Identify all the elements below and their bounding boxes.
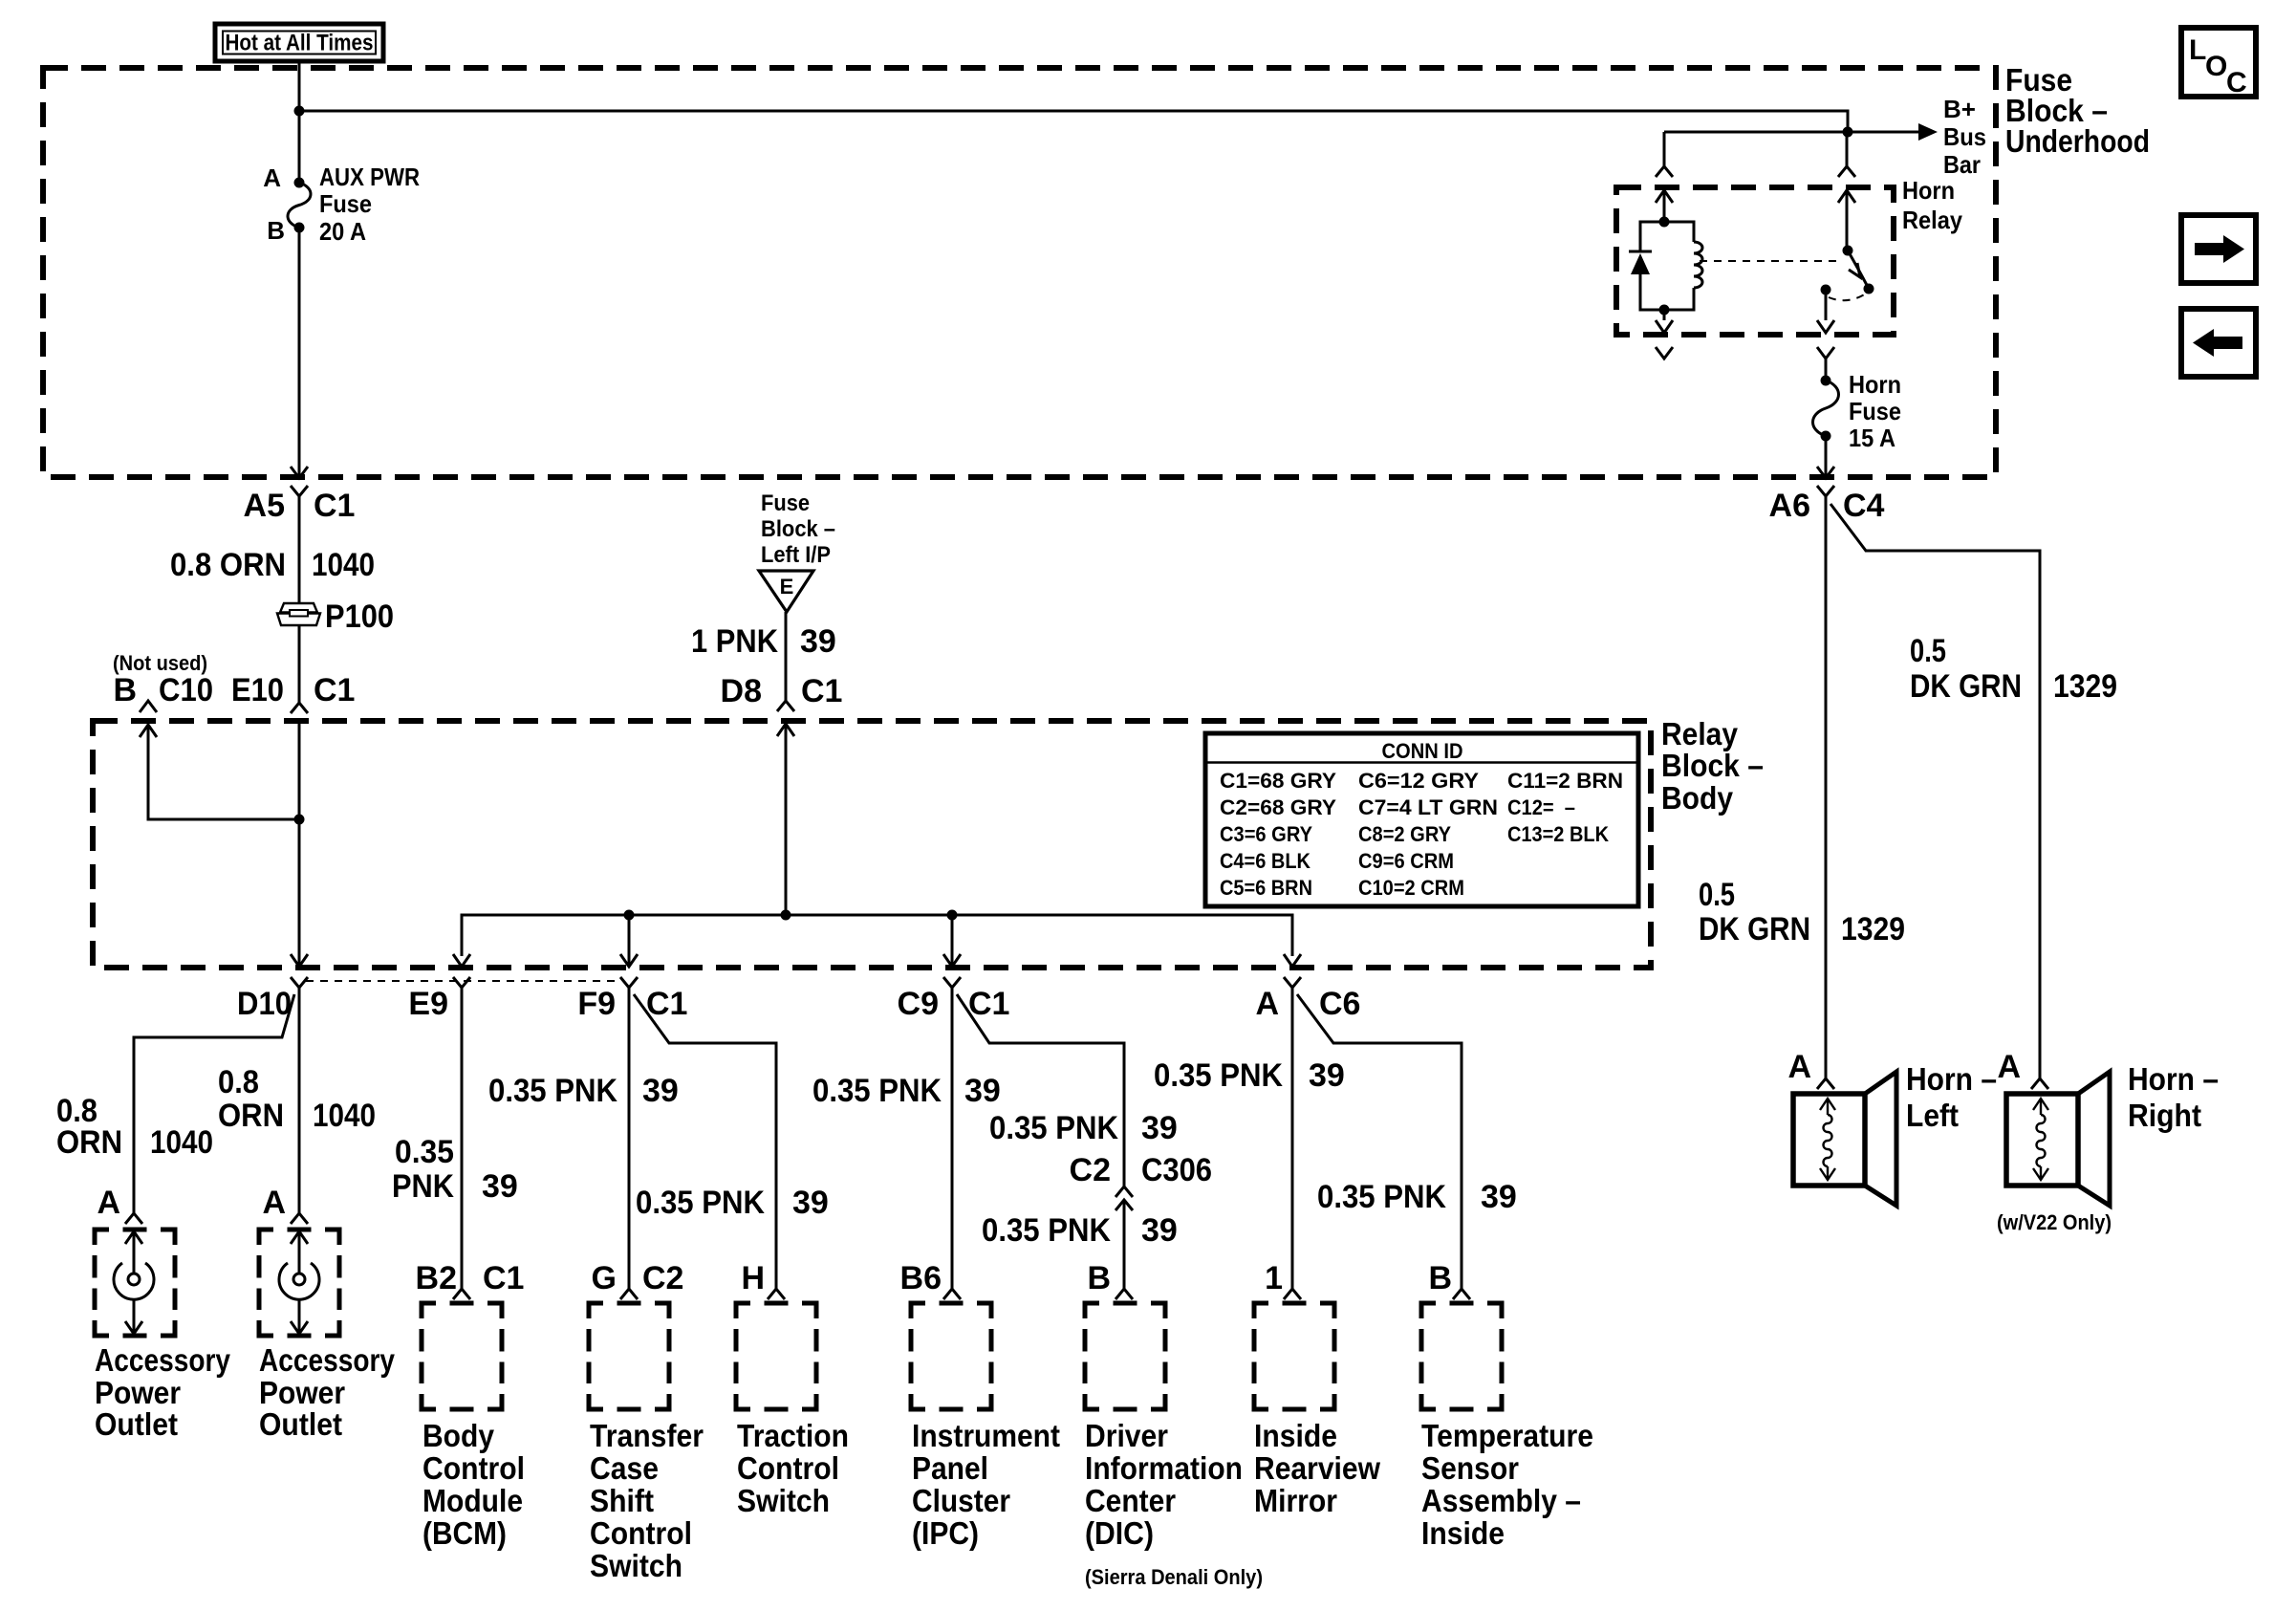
svg-text:0.35 PNK: 0.35 PNK — [1317, 1179, 1446, 1215]
svg-text:C4: C4 — [1843, 488, 1885, 524]
horn right coil symbol — [2033, 1099, 2048, 1180]
wire branch to B+ bus bar — [299, 111, 1848, 132]
svg-text:C2=68 GRY: C2=68 GRY — [1220, 795, 1336, 819]
wire A6 to left horn — [1825, 496, 1828, 1078]
wire C9 branch to DIC — [957, 994, 1124, 1186]
label 0.8 ORN 1040 outlet1 — [56, 1093, 213, 1161]
label Horn Fuse 15 A — [1849, 370, 1901, 452]
svg-text:Control: Control — [590, 1515, 692, 1551]
svg-text:P100: P100 — [325, 599, 394, 635]
svg-text:A: A — [1787, 1049, 1811, 1085]
label AUX PWR Fuse 20 A — [319, 163, 420, 246]
svg-text:1040: 1040 — [313, 1098, 376, 1134]
svg-text:C13=2 BLK: C13=2 BLK — [1507, 822, 1609, 846]
svg-text:0.35 PNK: 0.35 PNK — [636, 1185, 765, 1221]
svg-text:F9: F9 — [577, 986, 616, 1022]
svg-text:A: A — [263, 163, 281, 192]
connector chevron coil ground below relay — [1656, 347, 1673, 359]
node junction at main feed — [294, 106, 305, 117]
svg-text:C5=6 BRN: C5=6 BRN — [1220, 876, 1312, 900]
svg-text:0.35 PNK: 0.35 PNK — [989, 1110, 1118, 1146]
horn right box — [2006, 1072, 2110, 1206]
label 0.35 PNK 39 BCM — [392, 1134, 518, 1205]
svg-text:Instrument: Instrument — [912, 1418, 1060, 1453]
svg-text:0.35: 0.35 — [395, 1134, 454, 1170]
connector chevron traction — [768, 1289, 785, 1299]
svg-text:A: A — [97, 1185, 120, 1221]
connector chevron transfer — [620, 1289, 638, 1299]
svg-text:Assembly –: Assembly – — [1421, 1483, 1581, 1518]
connector chevron horn right — [2031, 1078, 2048, 1089]
svg-text:Temperature: Temperature — [1421, 1418, 1593, 1453]
node junction on bus bar — [1843, 127, 1853, 138]
wire B+ bus bar with arrow — [1664, 131, 1918, 134]
svg-text:Block –: Block – — [761, 516, 835, 542]
svg-text:39: 39 — [1141, 1110, 1178, 1146]
wire F9 to transfer case switch — [628, 988, 631, 1289]
svg-text:L: L — [2189, 34, 2206, 66]
svg-text:DK GRN: DK GRN — [1699, 911, 1810, 947]
node Hot at All Times — [215, 24, 383, 61]
relay coil loop — [1640, 217, 1694, 316]
svg-text:Block –: Block – — [1661, 748, 1764, 783]
label Body Control Module (BCM) — [422, 1418, 525, 1551]
svg-text:Bar: Bar — [1943, 150, 1981, 179]
wire D8 down to bus — [785, 724, 788, 915]
connector chevron horn left — [1817, 1078, 1834, 1089]
arrow exit at A6 — [1817, 467, 1834, 478]
svg-text:B2: B2 — [416, 1260, 457, 1296]
svg-text:39: 39 — [792, 1185, 829, 1221]
svg-text:C3=6 GRY: C3=6 GRY — [1220, 822, 1312, 846]
svg-text:39: 39 — [642, 1073, 679, 1109]
connector P100 — [277, 603, 320, 625]
wire not-used branch — [148, 725, 299, 819]
arrow exit at D10 — [291, 954, 308, 967]
arrow exit at A5 — [291, 467, 308, 478]
svg-text:Fuse: Fuse — [1849, 397, 1901, 425]
svg-text:(w/V22 Only): (w/V22 Only) — [1997, 1210, 2112, 1234]
wire A5 to P100 — [298, 496, 301, 703]
wire D10 to outlet 2 — [298, 988, 301, 1213]
wire E9 to BCM — [461, 988, 464, 1289]
svg-text:Horn: Horn — [1849, 370, 1901, 399]
wire fuse B down to fuse block bottom — [298, 228, 301, 475]
svg-text:C12= –: C12= – — [1507, 795, 1575, 819]
node E triangle Fuse Block Left I/P — [759, 571, 813, 612]
node junction C9 — [947, 910, 958, 921]
node back arrow box — [2181, 309, 2256, 377]
body control module box — [422, 1303, 502, 1409]
svg-text:Mirror: Mirror — [1254, 1483, 1337, 1518]
node junction D8 bus — [781, 910, 791, 921]
wire A C6 to mirror — [1291, 988, 1294, 1289]
wire C1 link dashed — [306, 980, 621, 982]
svg-text:Bus: Bus — [1943, 122, 1986, 151]
arrow exit at A C6 — [1284, 954, 1301, 967]
label Driver Information Center (DIC) — [1085, 1418, 1263, 1589]
svg-text:B+: B+ — [1943, 95, 1976, 123]
label 1 PNK 39 — [691, 623, 836, 660]
arrow coil ground exit — [1656, 310, 1673, 333]
svg-text:D10: D10 — [237, 986, 292, 1022]
label Relay Block - Body — [1661, 716, 1764, 816]
svg-text:Inside: Inside — [1254, 1418, 1337, 1453]
connector C2 C306 double chevron — [1116, 1186, 1133, 1289]
svg-text:(BCM): (BCM) — [422, 1515, 507, 1551]
wire C9 to IPC — [951, 988, 954, 1289]
dashed arc blade to contact — [1829, 294, 1866, 300]
svg-text:C7=4 LT GRN: C7=4 LT GRN — [1358, 795, 1498, 819]
svg-text:Transfer: Transfer — [590, 1418, 704, 1453]
label Accessory Power Outlet 1 — [95, 1342, 231, 1442]
svg-text:A6: A6 — [1769, 488, 1810, 524]
svg-text:0.8 ORN: 0.8 ORN — [170, 547, 286, 583]
arrow exit at C9 — [943, 954, 961, 967]
svg-text:B6: B6 — [900, 1260, 942, 1296]
svg-text:E10: E10 — [231, 672, 284, 708]
arrow switch output exit — [1817, 290, 1834, 333]
svg-text:Horn –: Horn – — [2128, 1061, 2219, 1097]
traction control switch box — [736, 1303, 816, 1409]
svg-text:Horn: Horn — [1902, 176, 1955, 205]
svg-text:Power: Power — [259, 1375, 345, 1410]
svg-text:Information: Information — [1085, 1450, 1243, 1486]
svg-text:ORN: ORN — [218, 1098, 284, 1134]
svg-text:(IPC): (IPC) — [912, 1515, 979, 1551]
svg-text:39: 39 — [800, 623, 836, 660]
connector chevron DIC — [1116, 1289, 1133, 1299]
svg-text:C6=12 GRY: C6=12 GRY — [1358, 769, 1479, 793]
svg-text:A: A — [262, 1185, 286, 1221]
connector E9 chevron — [453, 977, 470, 988]
svg-text:39: 39 — [1309, 1057, 1345, 1094]
svg-text:Switch: Switch — [590, 1548, 682, 1583]
CONN ID table — [1205, 733, 1638, 906]
svg-text:Power: Power — [95, 1375, 181, 1410]
svg-text:Underhood: Underhood — [2005, 123, 2150, 159]
connector chevron IPC — [943, 1289, 961, 1299]
svg-text:0.35 PNK: 0.35 PNK — [1154, 1057, 1283, 1094]
svg-text:Fuse: Fuse — [319, 189, 372, 218]
svg-text:Panel: Panel — [912, 1450, 988, 1486]
label Transfer Case Shift Control Switch — [590, 1418, 704, 1583]
svg-text:B: B — [1428, 1260, 1452, 1296]
temperature sensor assembly box — [1421, 1303, 1502, 1409]
svg-text:1329: 1329 — [2053, 668, 2117, 705]
svg-text:C6: C6 — [1319, 986, 1360, 1022]
svg-text:C11=2 BRN: C11=2 BRN — [1507, 769, 1623, 793]
svg-text:0.5: 0.5 — [1910, 633, 1946, 669]
svg-text:Traction: Traction — [737, 1418, 849, 1453]
wire to horn fuse — [1825, 359, 1828, 381]
svg-text:1329: 1329 — [1841, 911, 1905, 947]
dashed link coil to blade — [1700, 260, 1843, 262]
svg-text:39: 39 — [482, 1168, 518, 1205]
svg-text:Inside: Inside — [1421, 1515, 1505, 1551]
svg-text:1040: 1040 — [312, 547, 375, 583]
connector B C10 chevron — [140, 701, 157, 712]
svg-text:0.35 PNK: 0.35 PNK — [982, 1212, 1111, 1249]
svg-text:Body: Body — [1661, 780, 1734, 816]
svg-text:C8=2 GRY: C8=2 GRY — [1358, 822, 1451, 846]
svg-text:1040: 1040 — [150, 1124, 213, 1161]
label 0.35 PNK 39 mirror — [1154, 1057, 1345, 1094]
wire main through relay block to D10 — [298, 721, 301, 966]
svg-text:Relay: Relay — [1902, 206, 1962, 234]
label Fuse Block - Underhood — [2005, 62, 2150, 159]
svg-text:C2: C2 — [642, 1260, 683, 1296]
svg-text:Accessory: Accessory — [259, 1342, 396, 1378]
label Horn - Right — [2128, 1061, 2219, 1133]
connector chevron switch output below relay — [1817, 347, 1834, 359]
svg-text:B: B — [267, 216, 285, 245]
wire relay block bus — [462, 915, 1292, 956]
label B+ Bus Bar — [1943, 95, 1986, 179]
svg-text:1 PNK: 1 PNK — [691, 623, 778, 660]
svg-text:C10: C10 — [159, 672, 213, 708]
svg-text:Fuse: Fuse — [761, 490, 810, 516]
svg-text:C1: C1 — [314, 672, 355, 708]
label Accessory Power Outlet 2 — [259, 1342, 396, 1442]
svg-text:C9=6 CRM: C9=6 CRM — [1358, 849, 1454, 873]
svg-text:Sensor: Sensor — [1421, 1450, 1519, 1486]
inside rearview mirror box — [1254, 1303, 1334, 1409]
transfer case shift control switch box — [589, 1303, 669, 1409]
label 0.8 ORN 1040 — [170, 547, 375, 583]
svg-text:C1: C1 — [314, 488, 355, 524]
svg-text:0.5: 0.5 — [1699, 877, 1735, 913]
svg-text:Module: Module — [422, 1483, 523, 1518]
label Temperature Sensor Assembly - Inside — [1421, 1418, 1593, 1551]
svg-text:C9: C9 — [898, 986, 939, 1022]
arrow exit at F9 — [620, 954, 638, 967]
svg-text:1: 1 — [1265, 1260, 1283, 1296]
label 0.35 PNK 39 DIC lower — [982, 1212, 1178, 1249]
svg-text:A: A — [1997, 1049, 2021, 1085]
label Instrument Panel Cluster (IPC) — [912, 1418, 1060, 1551]
relay block body dashed box — [93, 721, 1651, 968]
connector C9 C1 chevron — [943, 977, 961, 988]
svg-text:B: B — [113, 672, 137, 708]
connector chevron temp — [1453, 1289, 1470, 1299]
svg-text:A: A — [1255, 986, 1279, 1022]
svg-text:C: C — [2226, 67, 2247, 98]
label 0.5 DK GRN 1329 left horn — [1699, 877, 1905, 947]
svg-text:C306: C306 — [1141, 1152, 1212, 1188]
svg-text:39: 39 — [1141, 1212, 1178, 1249]
svg-text:C2: C2 — [1070, 1152, 1111, 1188]
driver information center box — [1085, 1303, 1165, 1409]
svg-text:CONN ID: CONN ID — [1382, 739, 1463, 763]
wire horn fuse to fuse block bottom — [1825, 436, 1828, 475]
connector chevron outlet2 — [291, 1213, 308, 1224]
svg-text:C1: C1 — [968, 986, 1009, 1022]
connector chevron BCM — [453, 1289, 470, 1299]
label 0.35 PNK 39 DIC upper — [989, 1110, 1178, 1146]
svg-text:C1: C1 — [646, 986, 687, 1022]
svg-text:B: B — [1087, 1260, 1111, 1296]
label Inside Rearview Mirror — [1254, 1418, 1380, 1518]
svg-text:20 A: 20 A — [319, 217, 366, 246]
svg-text:AUX PWR: AUX PWR — [319, 163, 420, 191]
svg-text:Shift: Shift — [590, 1483, 654, 1518]
svg-text:Rearview: Rearview — [1254, 1450, 1380, 1486]
svg-text:Driver: Driver — [1085, 1418, 1168, 1453]
svg-text:Horn –: Horn – — [1906, 1061, 1997, 1097]
svg-text:Hot at All Times: Hot at All Times — [226, 31, 374, 56]
coil winding — [1694, 242, 1702, 288]
svg-text:Body: Body — [422, 1418, 495, 1453]
svg-text:Control: Control — [737, 1450, 839, 1486]
svg-text:0.8: 0.8 — [218, 1064, 259, 1100]
svg-text:E: E — [780, 575, 794, 599]
accessory power outlet 1 symbol — [114, 1231, 154, 1334]
instrument panel cluster box — [911, 1303, 991, 1409]
label 0.5 DK GRN 1329 right horn — [1910, 633, 2117, 705]
wire from Hot box to fuse A — [298, 61, 301, 183]
arrow coil feed entering relay — [1656, 190, 1673, 222]
horn left box — [1793, 1072, 1896, 1206]
svg-text:Left: Left — [1906, 1098, 1959, 1133]
connector chevron outlet1 — [125, 1213, 142, 1224]
svg-text:0.35 PNK: 0.35 PNK — [812, 1073, 942, 1109]
horn left coil symbol — [1820, 1099, 1835, 1180]
wire F9 branch to traction — [634, 994, 776, 1289]
node forward arrow box — [2181, 215, 2256, 283]
svg-text:DK GRN: DK GRN — [1910, 668, 2022, 705]
label Horn - Left — [1906, 1061, 1997, 1133]
label Fuse Block - Left I/P — [761, 490, 835, 568]
arrow D8 entering relay block — [777, 724, 794, 736]
arrow exit at E9 — [453, 954, 470, 967]
label 0.35 PNK 39 traction — [636, 1185, 829, 1221]
label 0.35 PNK 39 temp — [1317, 1179, 1517, 1215]
svg-text:H: H — [741, 1260, 765, 1296]
svg-text:(Sierra Denali Only): (Sierra Denali Only) — [1085, 1565, 1263, 1589]
svg-text:Cluster: Cluster — [912, 1483, 1010, 1518]
horn relay dashed box — [1616, 187, 1894, 335]
label 0.35 PNK 39 IPC — [812, 1073, 1001, 1109]
svg-text:Center: Center — [1085, 1483, 1176, 1518]
svg-text:O: O — [2205, 51, 2227, 82]
svg-text:E9: E9 — [408, 986, 448, 1022]
connector A6 C4 chevron — [1817, 486, 1834, 496]
svg-text:15 A: 15 A — [1849, 424, 1895, 452]
fuse F AUX PWR 20A — [288, 178, 311, 233]
svg-text:G: G — [592, 1260, 617, 1296]
label 0.35 PNK 39 transfer — [488, 1073, 679, 1109]
node junction main wire to branch — [294, 815, 305, 825]
svg-text:39: 39 — [964, 1073, 1001, 1109]
accessory power outlet 2 box — [259, 1230, 339, 1336]
connector D8 C1 chevron — [777, 701, 794, 711]
connector E10 C1 chevron — [291, 703, 308, 713]
diode in relay coil branch — [1629, 251, 1652, 274]
svg-text:C1: C1 — [483, 1260, 524, 1296]
svg-text:0.35 PNK: 0.35 PNK — [488, 1073, 617, 1109]
wire C4 branch to right horn — [1830, 504, 2040, 1078]
svg-text:Relay: Relay — [1661, 716, 1739, 751]
label 0.8 ORN 1040 outlet2 — [218, 1064, 376, 1134]
relay switch common contact — [1821, 285, 1831, 295]
svg-text:D8: D8 — [721, 673, 762, 709]
svg-text:Left I/P: Left I/P — [761, 542, 831, 568]
accessory power outlet 1 box — [95, 1230, 175, 1336]
wire A C6 branch to temp sensor — [1297, 994, 1462, 1289]
node LOC box — [2181, 28, 2256, 98]
svg-text:C4=6 BLK: C4=6 BLK — [1220, 849, 1310, 873]
accessory power outlet 2 symbol — [279, 1231, 319, 1334]
fuse horn 15A — [1813, 376, 1839, 442]
svg-text:Right: Right — [2128, 1098, 2201, 1133]
svg-text:Outlet: Outlet — [259, 1406, 342, 1442]
svg-text:Switch: Switch — [737, 1483, 830, 1518]
node junction F9 — [624, 910, 635, 921]
connector chevron horn relay switch feed — [1838, 137, 1855, 177]
arrow B C10 not-used exit — [140, 725, 157, 737]
connector A5 C1 chevron — [291, 486, 308, 496]
svg-text:Control: Control — [422, 1450, 525, 1486]
arrow switch feed entering relay — [1838, 190, 1855, 250]
svg-text:(DIC): (DIC) — [1085, 1515, 1154, 1551]
connector D10 chevron — [291, 977, 308, 988]
svg-text:Case: Case — [590, 1450, 659, 1486]
wire triangle E to D8 — [785, 612, 788, 701]
wire C9 drop — [951, 915, 954, 966]
svg-text:C1=68 GRY: C1=68 GRY — [1220, 769, 1336, 793]
svg-text:39: 39 — [1481, 1179, 1517, 1215]
svg-text:A5: A5 — [244, 488, 285, 524]
connector chevron mirror — [1284, 1289, 1301, 1299]
connector chevron horn relay coil feed — [1656, 132, 1673, 177]
svg-text:ORN: ORN — [56, 1124, 122, 1161]
label Traction Control Switch — [737, 1418, 849, 1518]
svg-text:C1: C1 — [801, 673, 842, 709]
svg-text:PNK: PNK — [392, 1168, 454, 1205]
connector F9 C1 chevron — [620, 977, 638, 988]
relay switch blade — [1843, 246, 1874, 294]
svg-text:Accessory: Accessory — [95, 1342, 231, 1378]
svg-text:Outlet: Outlet — [95, 1406, 178, 1442]
connector A C6 chevron — [1284, 977, 1301, 988]
wire F9 drop — [628, 915, 631, 966]
wire D10 branch to outlet 1 — [134, 994, 294, 1213]
fuse block underhood dashed box — [43, 68, 1996, 477]
svg-text:C10=2 CRM: C10=2 CRM — [1358, 876, 1464, 900]
label Horn Relay — [1902, 176, 1962, 234]
